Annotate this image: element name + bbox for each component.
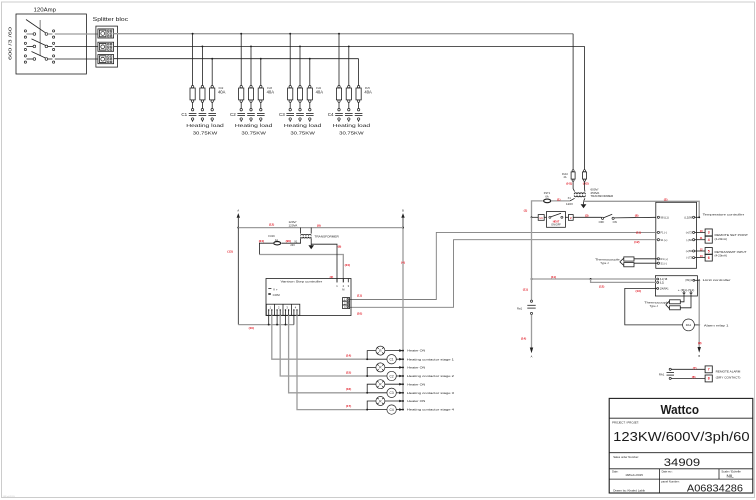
wire RA1 contact to terminal 8 bbox=[671, 377, 705, 379]
svg-text:(9): (9) bbox=[317, 223, 321, 227]
svg-text:(11): (11) bbox=[636, 230, 641, 234]
svg-text:X1: X1 bbox=[294, 240, 298, 244]
svg-text:(H1): (H1) bbox=[566, 182, 572, 186]
svg-text:(9): (9) bbox=[698, 341, 702, 345]
wire rail to terminal L1 bbox=[532, 216, 539, 218]
fuse FU16 bbox=[268, 234, 280, 245]
wire coil C4 to rail bbox=[396, 409, 403, 411]
terminal block L1 bbox=[538, 215, 544, 221]
label Heater ON stage 4 bbox=[399, 399, 425, 403]
svg-text:4: 4 bbox=[295, 305, 297, 309]
wire stage 2 output drop bbox=[280, 315, 367, 376]
disconnect pole 2 bbox=[24, 39, 54, 51]
svg-text:OFF: OFF bbox=[599, 220, 605, 224]
temperature controller terminal S1 (-) bbox=[657, 261, 667, 265]
wire limit RA1 terminal to alarm relay coil bbox=[625, 288, 683, 325]
junction bus L1 group 3 bbox=[289, 33, 291, 35]
wire fuse to contactor C2 pole 3 bbox=[260, 102, 262, 108]
svg-text:2: 2 bbox=[570, 216, 572, 220]
junction common net stage 3 bbox=[285, 324, 287, 326]
svg-text:ON/OFF: ON/OFF bbox=[551, 223, 561, 227]
fuse value label FU3 40A bbox=[267, 87, 275, 94]
svg-text:(12): (12) bbox=[599, 284, 604, 288]
svg-text:(11): (11) bbox=[551, 275, 556, 279]
wire bus L2 drop to FU10b bbox=[584, 46, 586, 169]
wire analog terminal to block 6 bbox=[695, 257, 705, 259]
ground symbol T2 bbox=[308, 245, 314, 249]
svg-text:F1 (-): F1 (-) bbox=[661, 231, 667, 235]
contactor C2 pole 2 contact bbox=[247, 109, 255, 122]
junction bus L1 group 2 bbox=[240, 33, 242, 35]
junction bus L3 group 1 bbox=[211, 58, 213, 60]
continuation arrow A down bbox=[530, 348, 533, 359]
wire bus phase L2 bbox=[114, 45, 585, 47]
svg-text:(15): (15) bbox=[346, 370, 351, 374]
label Heater ON stage 3 bbox=[399, 382, 425, 386]
temperature controller terminal 98 (L1) bbox=[657, 215, 669, 219]
svg-text:Heater ON: Heater ON bbox=[407, 349, 425, 353]
junction rail pilot 3 bbox=[402, 383, 404, 385]
fuse value label FU10 4A bbox=[562, 173, 569, 179]
limit controller terminal (L1) 98 bbox=[657, 278, 668, 281]
temperature controller U1 body bbox=[656, 202, 744, 268]
splitter terminal module 3 bbox=[98, 55, 114, 64]
wire X1 to fuse FST1 bbox=[552, 200, 570, 202]
junction rail at limit L1 bbox=[531, 278, 533, 280]
svg-text:Heating contactor stage 1: Heating contactor stage 1 bbox=[407, 357, 455, 361]
svg-text:(7): (7) bbox=[693, 366, 697, 370]
wire right rail lower segment bbox=[698, 280, 700, 347]
svg-text:5: 5 bbox=[708, 249, 710, 253]
wire net A vertical bbox=[237, 218, 239, 325]
junction bus L3 group 3 bbox=[309, 58, 311, 60]
contactor C2 pole 1 contact bbox=[237, 109, 245, 122]
contactor C1 pole 2 contact bbox=[199, 109, 207, 122]
svg-text:C3: C3 bbox=[279, 112, 285, 117]
label Heating contactor stage 2 bbox=[399, 374, 454, 378]
svg-text:B: B bbox=[402, 209, 404, 213]
svg-text:98 (L1): 98 (L1) bbox=[661, 215, 669, 219]
wire stage terminal 3 common pin bbox=[285, 315, 287, 324]
contactor C1 pole 1 contact bbox=[189, 109, 197, 122]
wire RA1 contact to terminal 7 bbox=[671, 368, 705, 370]
limit controller U2 body bbox=[655, 276, 730, 296]
svg-text:(90): (90) bbox=[286, 239, 291, 243]
svg-text:panel Number:: panel Number: bbox=[661, 480, 680, 484]
fuse FU4 pole 2 bbox=[297, 86, 302, 103]
svg-text:(4-20mA): (4-20mA) bbox=[715, 237, 728, 241]
step controller COM legend bbox=[268, 293, 280, 297]
svg-text:(9): (9) bbox=[338, 244, 342, 248]
svg-text:18/Feb./2015: 18/Feb./2015 bbox=[625, 473, 643, 477]
junction rail pilot 2 bbox=[402, 366, 404, 368]
wire fuse to contactor C4 pole 1 bbox=[338, 102, 340, 108]
svg-text:Date rev.:: Date rev.: bbox=[662, 469, 673, 473]
svg-text:30.75KW: 30.75KW bbox=[193, 131, 218, 136]
wire drop bus L1 to fuse group 2 bbox=[240, 34, 242, 86]
svg-text:(12): (12) bbox=[269, 223, 274, 227]
svg-text:3: 3 bbox=[708, 231, 710, 235]
pilot light R stage 3 bbox=[376, 380, 385, 389]
junction rail coil 3 bbox=[402, 392, 404, 394]
wire fuse to contactor C1 pole 3 bbox=[211, 102, 213, 108]
fuse FU3 pole 3 bbox=[258, 86, 263, 103]
fuse FU3 pole 1 bbox=[239, 86, 244, 103]
stage terminal 3 pins bbox=[285, 305, 290, 315]
fuse FU10a bbox=[571, 170, 575, 182]
wire net 24 run bbox=[259, 255, 343, 283]
junction stage 2 branch bbox=[366, 375, 368, 377]
wire relay coil to right rail bbox=[694, 324, 699, 326]
pilot light R stage 2 bbox=[376, 363, 385, 372]
wire stage 2 to coil bbox=[367, 375, 387, 377]
stage terminal 2 pins bbox=[276, 305, 281, 315]
wire fuse to contactor C1 pole 2 bbox=[201, 102, 203, 108]
wire fuse to contactor C4 pole 3 bbox=[358, 102, 360, 108]
svg-text:RA1: RA1 bbox=[659, 373, 665, 377]
junction bus L1 group 1 bbox=[192, 33, 194, 35]
junction common net stage 2 bbox=[276, 324, 278, 326]
wire drop bus L2 to fuse group 2 bbox=[250, 46, 252, 85]
svg-text:ON: ON bbox=[613, 220, 617, 224]
wire fuse to contactor C4 pole 2 bbox=[348, 102, 350, 108]
wire bus phase L1 bbox=[114, 33, 573, 35]
fuse value label FU5 40A bbox=[364, 87, 372, 94]
svg-text:120V: 120V bbox=[566, 202, 573, 206]
svg-text:2: 2 bbox=[278, 305, 280, 309]
svg-text:(16): (16) bbox=[346, 387, 351, 391]
svg-text:(1): (1) bbox=[524, 208, 528, 212]
wire disconnect pole 1 to splitter bbox=[55, 33, 98, 35]
terminal block 6 bbox=[705, 254, 712, 261]
svg-text:24V: 24V bbox=[290, 243, 295, 247]
transformer T2 value label bbox=[289, 220, 298, 227]
step controller U3 body bbox=[266, 279, 351, 316]
wire left control rail mid segment bbox=[531, 217, 533, 300]
svg-text:COM: COM bbox=[273, 293, 281, 297]
contactor coil C2 bbox=[387, 371, 396, 380]
wire drop bus L2 to fuse group 3 bbox=[299, 46, 301, 85]
wire pilot stage 4 to rail bbox=[385, 400, 403, 402]
pilot light R stage 1 bbox=[376, 346, 385, 355]
svg-text:(17): (17) bbox=[346, 404, 351, 408]
svg-text:(-)73: (-)73 bbox=[686, 256, 692, 260]
step controller V+ legend bbox=[268, 287, 278, 291]
wire drop bus L3 to fuse group 1 bbox=[211, 59, 213, 86]
wire drop bus L1 to fuse group 1 bbox=[192, 34, 194, 86]
svg-text:123KW/600V/3ph/60: 123KW/600V/3ph/60 bbox=[613, 429, 749, 444]
continuation arrow B up bbox=[401, 209, 404, 218]
junction rail coil 1 bbox=[402, 358, 404, 360]
terminal label X1 24V bbox=[290, 240, 298, 247]
label Heating contactor stage 3 bbox=[399, 391, 454, 395]
svg-text:L1: L1 bbox=[540, 216, 544, 220]
wire TC2 to limit + terminal bbox=[680, 294, 684, 302]
wire T1 secondary X2 bbox=[584, 198, 585, 204]
svg-text:(L2)99: (L2)99 bbox=[684, 215, 692, 219]
svg-text:30.75KW: 30.75KW bbox=[241, 131, 266, 136]
disconnect pole 3 bbox=[24, 52, 54, 64]
splitter terminal module 1 bbox=[98, 29, 114, 38]
label RETRANSMIT INPUT bbox=[715, 250, 747, 258]
svg-text:PROJECT / PROJET:: PROJECT / PROJET: bbox=[612, 421, 639, 425]
junction bus L2 group 3 bbox=[299, 45, 301, 47]
terminal block 8 bbox=[705, 375, 712, 382]
svg-text:(13): (13) bbox=[636, 289, 641, 293]
splitter terminal module 2 bbox=[98, 42, 114, 51]
wire disconnect pole 3 to splitter bbox=[55, 58, 98, 60]
svg-text:(+)72: (+)72 bbox=[686, 231, 693, 235]
wire stage 1 output drop bbox=[272, 315, 367, 359]
wire bus phase L3 bbox=[114, 58, 359, 60]
svg-text:2: 2 bbox=[343, 284, 345, 288]
title block date label bbox=[612, 469, 643, 477]
svg-text:91 (+): 91 (+) bbox=[661, 238, 668, 242]
wire coil C3 to rail bbox=[396, 392, 403, 394]
wire limit supply L2 bbox=[591, 279, 657, 282]
svg-text:Type J: Type J bbox=[600, 261, 609, 265]
continuation arrow A up bbox=[237, 209, 240, 218]
wire fuse to contactor C1 pole 1 bbox=[192, 102, 194, 108]
fuse FU2 pole 3 bbox=[210, 86, 215, 103]
wire bus L1 drop to FU10a bbox=[572, 34, 574, 170]
wire stage 4 output drop bbox=[297, 315, 367, 409]
svg-text:120Amp: 120Amp bbox=[34, 7, 57, 13]
contactor C4 pole 3 contact bbox=[355, 109, 363, 122]
wire (L2)99 to right rail bbox=[695, 216, 700, 218]
svg-text:C2: C2 bbox=[390, 374, 394, 378]
thermocouple TC1 Type J bbox=[595, 257, 634, 267]
wire stage terminal 4 common pin bbox=[293, 315, 295, 324]
svg-text:(1): (1) bbox=[557, 197, 561, 201]
junction right rail at relay bbox=[698, 324, 700, 326]
svg-text:(14): (14) bbox=[521, 336, 526, 340]
svg-text:Date:: Date: bbox=[612, 469, 618, 473]
svg-text:TRANSFORMER: TRANSFORMER bbox=[591, 194, 614, 198]
disconnect switch 120Amp enclosure box bbox=[16, 7, 86, 74]
junction limit L2 branch bbox=[590, 278, 592, 280]
svg-text:(2): (2) bbox=[664, 197, 668, 201]
svg-text:(10): (10) bbox=[357, 312, 362, 316]
svg-text:7: 7 bbox=[708, 368, 710, 372]
fuse FST1 6A bbox=[544, 191, 551, 203]
junction bus L2 group 4 bbox=[348, 45, 350, 47]
svg-text:6A: 6A bbox=[545, 194, 548, 198]
wire T2 primary leads bbox=[301, 228, 312, 234]
wire fuse to contactor C2 pole 2 bbox=[250, 102, 252, 108]
wire terminal L1 to heat switch bbox=[544, 216, 546, 218]
svg-text:(10): (10) bbox=[249, 326, 254, 330]
svg-text:B: B bbox=[698, 354, 700, 358]
junction bus L1 group 4 bbox=[338, 33, 340, 35]
limit controller terminal (L2) bbox=[657, 281, 664, 284]
temperature controller terminal (-)82 bbox=[686, 238, 694, 242]
wire drop bus L1 to fuse group 3 bbox=[289, 34, 291, 86]
svg-text:Scale / Echelle: Scale / Echelle bbox=[721, 469, 741, 473]
wire stage 4 to coil bbox=[367, 409, 387, 411]
wire coil C1 to rail bbox=[396, 358, 403, 360]
junction control rail left bbox=[531, 216, 533, 218]
svg-text:4A: 4A bbox=[275, 239, 278, 242]
svg-text:Limit controller: Limit controller bbox=[703, 278, 731, 282]
svg-text:C3: C3 bbox=[390, 391, 394, 395]
svg-text:C4: C4 bbox=[328, 112, 334, 117]
wire TC1 to R1 bbox=[634, 258, 657, 260]
svg-text:8: 8 bbox=[708, 377, 710, 381]
temperature controller terminal F1 (-) bbox=[657, 231, 667, 235]
step controller supply pins 1 2 3 bbox=[336, 279, 349, 292]
fuse FU5 pole 3 bbox=[356, 86, 361, 103]
temperature controller terminal (-)73 bbox=[686, 256, 694, 260]
contactor coil C3 bbox=[387, 388, 396, 397]
wire stage 4 pilot branch bbox=[367, 401, 376, 410]
wire OFF/ON switch to temperature controller bbox=[614, 216, 656, 219]
wire net B vertical stub bbox=[402, 218, 404, 228]
disconnect handle blade bbox=[26, 20, 46, 33]
svg-text:(8): (8) bbox=[692, 375, 696, 379]
wire 120V feed net 12/9 bbox=[238, 227, 403, 229]
junction common net stage 1 bbox=[268, 324, 270, 326]
wire analog terminal to block 3 bbox=[695, 231, 705, 233]
wire terminal 2 to OFF/ON switch bbox=[573, 216, 601, 218]
svg-text:18/Feb/2015: 18/Feb/2015 bbox=[3, 496, 16, 498]
label Heating contactor stage 1 bbox=[399, 357, 454, 361]
terminal block 7 bbox=[705, 366, 712, 373]
wire drop bus L1 to fuse group 4 bbox=[338, 34, 340, 86]
svg-text:3: 3 bbox=[348, 284, 350, 288]
svg-text:(11): (11) bbox=[523, 287, 528, 291]
disconnect pole 1 bbox=[24, 30, 54, 38]
wire FU16 to step controller supply bbox=[259, 243, 273, 254]
svg-text:(-)82: (-)82 bbox=[686, 238, 692, 242]
label Heating contactor stage 4 bbox=[399, 408, 454, 412]
fuse FU4 pole 3 bbox=[307, 86, 312, 103]
pilot light R stage 4 bbox=[376, 397, 385, 406]
wire drop bus L3 to fuse group 2 bbox=[260, 59, 262, 86]
wire disconnect pole 2 to splitter bbox=[55, 45, 98, 47]
splitter bloc enclosure bbox=[93, 17, 129, 67]
transformer T2 120V/120VA bbox=[301, 234, 312, 238]
fuse FU4 pole 1 bbox=[288, 86, 293, 103]
svg-text:Heating load: Heating load bbox=[284, 123, 322, 128]
svg-text:34909: 34909 bbox=[664, 457, 700, 469]
svg-text:Heating load: Heating load bbox=[186, 123, 224, 128]
svg-text:(24)RA1: (24)RA1 bbox=[660, 287, 670, 290]
step controller stage terminal strip bbox=[266, 304, 300, 315]
limit controller thermocouple input terminals bbox=[678, 289, 695, 294]
svg-text:Heater ON: Heater ON bbox=[407, 366, 425, 370]
svg-text:30.75KW: 30.75KW bbox=[339, 131, 364, 136]
heating load label group 2 bbox=[235, 123, 273, 136]
fuse FU2 pole 1 bbox=[190, 86, 195, 103]
wire analog terminal to block 4 bbox=[695, 239, 705, 241]
svg-text:Heater ON: Heater ON bbox=[407, 382, 425, 386]
svg-text:X1: X1 bbox=[568, 196, 572, 200]
wire pilot stage 1 to rail bbox=[385, 350, 403, 352]
svg-text:A: A bbox=[237, 209, 239, 213]
svg-text:(+)83: (+)83 bbox=[686, 249, 693, 253]
svg-text:FU16: FU16 bbox=[268, 234, 275, 238]
svg-text:Sales order Number:: Sales order Number: bbox=[613, 455, 639, 459]
transformer T1 600V/250VA bbox=[574, 193, 585, 197]
heating load label group 4 bbox=[333, 123, 371, 136]
ground symbol T1 X2 bbox=[581, 204, 587, 208]
temperature controller terminal (L2)99 bbox=[684, 215, 694, 219]
svg-text:Type J: Type J bbox=[650, 304, 659, 308]
transformer T1 value label bbox=[591, 187, 614, 198]
fuse value label FU4 40A bbox=[316, 87, 324, 94]
contactor C3 pole 1 contact bbox=[286, 109, 294, 122]
svg-text:40A: 40A bbox=[267, 89, 275, 94]
stage terminal 4 pins bbox=[293, 305, 298, 315]
svg-text:NIL: NIL bbox=[727, 474, 735, 479]
temperature controller terminal (+)72 bbox=[686, 231, 695, 235]
svg-text:Heating load: Heating load bbox=[235, 123, 273, 128]
thermocouple TC2 Type J bbox=[644, 300, 680, 310]
svg-text:120VA: 120VA bbox=[289, 224, 298, 228]
wire FU10a to transformer T1 primary bbox=[573, 181, 575, 191]
wire fuse to contactor C3 pole 1 bbox=[289, 102, 291, 108]
svg-text:Alarm relay 1: Alarm relay 1 bbox=[704, 323, 729, 327]
fuse value label FU2 40A bbox=[218, 87, 226, 94]
reset contact Rst1 bbox=[517, 300, 536, 314]
svg-text:(24): (24) bbox=[345, 263, 350, 267]
wire pilot stage 2 to rail bbox=[385, 366, 403, 368]
OFF/ON toggle switch bbox=[599, 214, 617, 224]
junction bus L2 group 2 bbox=[250, 45, 252, 47]
wire net 2 to step controller bbox=[311, 244, 337, 282]
wire stage 3 to coil bbox=[367, 392, 387, 394]
junction stage 4 branch bbox=[366, 409, 368, 411]
relay contact RA1 bbox=[659, 368, 674, 379]
svg-text:REMOTE ALARM: REMOTE ALARM bbox=[716, 370, 741, 374]
wire TC2 to limit - terminal bbox=[680, 294, 691, 308]
svg-text:4: 4 bbox=[708, 238, 710, 242]
svg-text:(11): (11) bbox=[357, 294, 362, 298]
wire stage 2 pilot branch bbox=[367, 367, 376, 376]
junction stage 3 branch bbox=[366, 392, 368, 394]
svg-text:Wattco: Wattco bbox=[661, 402, 700, 417]
wire T1 X2 to right rail bbox=[584, 201, 700, 217]
svg-text:40A: 40A bbox=[364, 89, 372, 94]
terminal block 2 bbox=[568, 215, 573, 221]
wire T2 secondary left lead bbox=[282, 238, 301, 243]
title block scale label bbox=[721, 469, 741, 478]
svg-text:40A: 40A bbox=[218, 89, 226, 94]
wire drop bus L3 to fuse group 3 bbox=[309, 59, 311, 86]
contactor C3 pole 3 contact bbox=[306, 109, 314, 122]
wire FU10b to transformer T1 primary bbox=[584, 181, 586, 191]
contactor C3 pole 2 contact bbox=[296, 109, 304, 122]
label REMOTE SET POINT bbox=[715, 233, 749, 241]
svg-text:+ (R1)-(S1): + (R1)-(S1) bbox=[678, 289, 695, 292]
wire pilot stage 3 to rail bbox=[385, 383, 403, 385]
svg-text:Heating load: Heating load bbox=[333, 123, 371, 128]
heating load label group 1 bbox=[186, 123, 224, 136]
svg-text:(8): (8) bbox=[635, 214, 639, 218]
svg-text:6: 6 bbox=[708, 256, 710, 260]
svg-text:C1: C1 bbox=[390, 358, 394, 362]
fuse FU10b bbox=[583, 170, 587, 182]
limit controller terminal 99 (2) bbox=[686, 279, 695, 282]
svg-text:[99] (2: [99] (2 bbox=[686, 279, 693, 282]
svg-text:S1 (-): S1 (-) bbox=[661, 261, 668, 265]
svg-text:Temperature controller: Temperature controller bbox=[703, 212, 745, 216]
svg-text:Rst1: Rst1 bbox=[517, 307, 523, 310]
svg-text:M: M bbox=[342, 288, 344, 292]
stage terminal 1 pins bbox=[268, 305, 272, 315]
svg-text:(DRY CONTACT): (DRY CONTACT) bbox=[716, 375, 741, 379]
